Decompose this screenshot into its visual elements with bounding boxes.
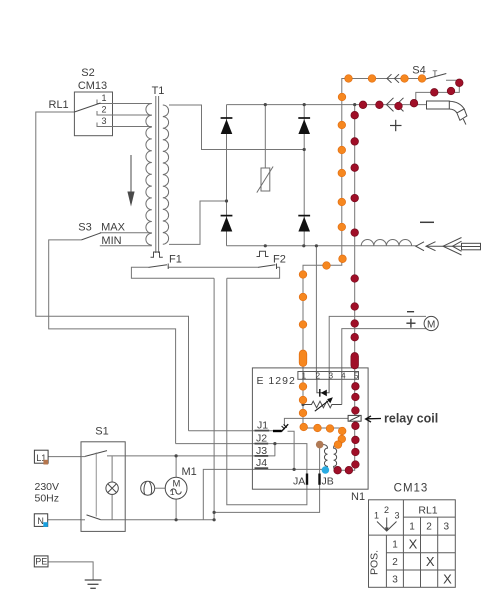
relay coil annotation arrow bbox=[367, 418, 382, 420]
wire F1 drop vertical3 to S1 bottom bbox=[213, 278, 215, 520]
wire J1 row bbox=[189, 430, 274, 432]
diode D1 top-left bbox=[221, 117, 233, 119]
svg-text:1: 1 bbox=[374, 511, 379, 521]
transformer T1 secondary winding bbox=[163, 105, 169, 244]
svg-text:MAX: MAX bbox=[101, 222, 126, 234]
svg-text:JB: JB bbox=[322, 476, 334, 488]
relay coil bbox=[348, 415, 361, 421]
board pin strip bbox=[298, 372, 359, 380]
table CM13/RL1 bbox=[369, 500, 456, 588]
wire N to S1 bbox=[48, 519, 81, 521]
svg-text:S2: S2 bbox=[81, 67, 94, 79]
wire J2-J3 link bbox=[274, 444, 276, 457]
svg-text:CM13: CM13 bbox=[394, 483, 429, 495]
transformer T1 primary winding bbox=[146, 104, 152, 246]
svg-text:S1: S1 bbox=[95, 426, 108, 438]
feedback winding right bbox=[334, 444, 339, 470]
wire PE to ground bbox=[48, 562, 93, 580]
orange control-current dots bbox=[299, 75, 426, 449]
diode D4 bottom-right bbox=[298, 215, 310, 217]
wire S3 common to J2 drop bbox=[49, 240, 176, 444]
terminal L1 bbox=[34, 450, 48, 463]
wire pin4 to motor plus bbox=[342, 329, 426, 373]
switch S1 mechanical link bbox=[95, 453, 97, 517]
wire varistor column bbox=[264, 105, 266, 168]
svg-text:3: 3 bbox=[392, 575, 398, 586]
diode D3 bottom-left bbox=[221, 215, 233, 217]
svg-text:N1: N1 bbox=[351, 491, 365, 503]
wire J2 row bbox=[176, 444, 307, 474]
svg-text:2: 2 bbox=[384, 505, 389, 515]
work clamp arrow bbox=[427, 245, 462, 247]
wire M1 bottom drop bbox=[175, 499, 177, 520]
wire J3 row from S1 top bbox=[125, 455, 275, 457]
svg-text:relay coil: relay coil bbox=[384, 412, 438, 426]
svg-text:T1: T1 bbox=[152, 85, 165, 97]
wire pin3 to motor minus bbox=[329, 316, 426, 373]
svg-text:CM13: CM13 bbox=[78, 80, 107, 92]
motor M1 bbox=[165, 477, 187, 499]
fan symbol bbox=[141, 481, 155, 495]
svg-text:2: 2 bbox=[316, 372, 321, 381]
work clamp chevron bbox=[416, 242, 424, 251]
board diode bbox=[319, 389, 321, 397]
diode D2 top-right bbox=[298, 117, 310, 119]
terminal PE bbox=[34, 556, 48, 567]
svg-text:M1: M1 bbox=[182, 466, 197, 478]
svg-text:PE: PE bbox=[35, 557, 47, 567]
wire secondary top tap jog bbox=[169, 105, 304, 150]
chevron arrows on weld current rail bbox=[387, 98, 404, 112]
wire secondary bottom tap jog bbox=[169, 201, 227, 244]
wire S4 to torch rail bbox=[416, 80, 460, 104]
svg-text:F1: F1 bbox=[169, 254, 182, 266]
svg-text:1: 1 bbox=[302, 372, 307, 381]
wire pin1 inside board bbox=[303, 379, 342, 444]
svg-text:50Hz: 50Hz bbox=[35, 493, 60, 505]
switch S3 MAX wire bbox=[100, 232, 152, 234]
chevron arrows on S4 control run bbox=[387, 74, 399, 83]
wire bottom rail bbox=[227, 245, 418, 247]
svg-text:S3: S3 bbox=[78, 222, 91, 234]
control board E1292 box bbox=[252, 368, 368, 489]
svg-text:JA: JA bbox=[293, 476, 305, 488]
plus label (torch positive) bbox=[390, 125, 402, 127]
wire S4 control: top run and drop to board pin1 bbox=[303, 79, 426, 374]
output inductor bbox=[361, 240, 411, 246]
wire M1 fan link bbox=[154, 487, 165, 489]
wire F2 drop vertical4 to JA bbox=[227, 278, 307, 505]
switch S3 lever bbox=[82, 233, 102, 240]
relay contact J1 bbox=[273, 430, 282, 432]
contact F1 lever bbox=[149, 265, 168, 268]
wire L1 to S1 bbox=[48, 456, 81, 458]
wire pin2 from bottom rail bbox=[315, 246, 317, 373]
switch S2 box bbox=[74, 92, 112, 136]
motor plus label bbox=[406, 322, 415, 324]
wire pin5 weld sense from rail bbox=[354, 105, 356, 373]
board diode bracket bbox=[317, 379, 329, 392]
motor minus label bbox=[407, 311, 414, 313]
svg-text:1: 1 bbox=[392, 540, 398, 551]
thermal contacts F1 F2 frame bbox=[131, 267, 214, 278]
svg-text:S4: S4 bbox=[412, 65, 425, 77]
dark red weld-current dots bbox=[334, 79, 463, 474]
wire bridge right column bbox=[303, 105, 305, 246]
svg-text:N: N bbox=[37, 516, 44, 526]
wire J4 row bbox=[203, 469, 322, 519]
svg-text:POS.: POS. bbox=[369, 550, 381, 575]
switch S1 box bbox=[81, 442, 125, 532]
wire feed motor M bbox=[424, 316, 438, 330]
thermal cutout F1 symbol bbox=[151, 252, 163, 257]
wire relay coil to J1 lever bbox=[284, 418, 348, 426]
terminal N bbox=[34, 514, 47, 527]
svg-text:F2: F2 bbox=[273, 254, 286, 266]
svg-text:RL1: RL1 bbox=[49, 99, 69, 111]
svg-text:X: X bbox=[443, 572, 452, 587]
minus label (electrode negative) bbox=[420, 221, 434, 223]
svg-text:2: 2 bbox=[426, 522, 432, 533]
svg-text:2: 2 bbox=[101, 105, 106, 115]
contact F2 lever bbox=[258, 265, 276, 268]
wire J1 contact to J4 net bbox=[288, 431, 295, 469]
wire RL1 from S2 common to left drop bbox=[36, 112, 189, 431]
switch S3 MIN wire bbox=[100, 245, 152, 247]
brown winding dot bbox=[316, 441, 324, 449]
work clamp bbox=[443, 238, 462, 256]
svg-text:1: 1 bbox=[409, 522, 415, 533]
switch S1 top contact bbox=[81, 456, 85, 458]
feedback winding left bbox=[321, 444, 328, 469]
svg-text:5: 5 bbox=[354, 372, 359, 381]
signal lamp bbox=[111, 456, 113, 482]
board potentiometer bbox=[341, 379, 343, 404]
ground bbox=[85, 579, 102, 581]
svg-text:3: 3 bbox=[101, 116, 106, 126]
switch S4 lever bbox=[426, 74, 446, 80]
svg-text:230V: 230V bbox=[35, 481, 60, 493]
svg-text:3: 3 bbox=[444, 522, 450, 533]
svg-text:MIN: MIN bbox=[101, 235, 121, 247]
svg-text:RL1: RL1 bbox=[418, 505, 437, 517]
transformer T1 core bbox=[155, 96, 157, 253]
svg-text:X: X bbox=[409, 537, 418, 552]
svg-text:1: 1 bbox=[101, 93, 106, 103]
svg-text:2: 2 bbox=[392, 557, 398, 568]
svg-text:E 1292: E 1292 bbox=[257, 375, 296, 387]
svg-text:M: M bbox=[427, 319, 435, 330]
transformer tap adjust arrow bbox=[130, 155, 132, 196]
switch S1 bottom contact bbox=[81, 519, 85, 521]
wire pin5 inside board bbox=[339, 379, 355, 470]
wire bridge left column bbox=[226, 105, 228, 246]
torch bbox=[427, 101, 450, 109]
blue winding dot bbox=[322, 466, 330, 474]
varistor bbox=[261, 168, 270, 191]
wire M1 top drop bbox=[175, 456, 177, 478]
svg-text:X: X bbox=[426, 554, 435, 569]
wire top rail to torch bbox=[227, 104, 427, 106]
svg-text:3: 3 bbox=[395, 511, 400, 521]
thermal cutout F2 symbol bbox=[257, 251, 269, 256]
wire JB to vertical3 bbox=[214, 445, 320, 512]
wire S1 bottom to vertical3 bbox=[125, 519, 214, 521]
switch S2 lever bbox=[74, 103, 100, 112]
